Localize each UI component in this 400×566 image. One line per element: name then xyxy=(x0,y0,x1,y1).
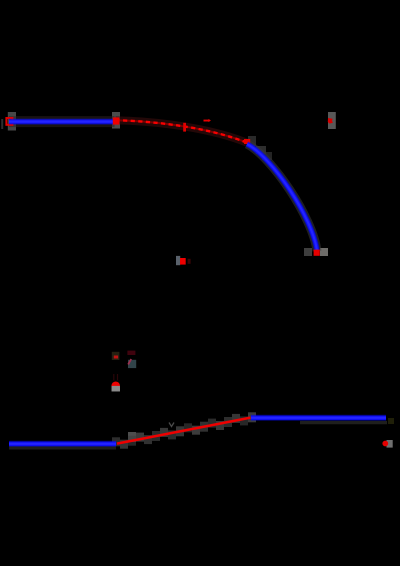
faint dark red marks upper right of slider xyxy=(127,351,135,355)
red marker at bottom end of blue arc xyxy=(314,250,320,256)
small dark glyph above phase line xyxy=(169,423,174,427)
red dashed actual response curve (top) xyxy=(116,120,248,143)
faint halo under bottom-right blue line xyxy=(300,421,387,424)
faint halo along blue arc xyxy=(247,144,317,251)
faint halo under bottom-left blue line xyxy=(9,446,116,450)
bottom-right blue phase asymptote xyxy=(251,415,386,421)
dark legs above red dome xyxy=(113,374,114,380)
artifact box on bottom red line xyxy=(128,432,136,442)
faint halo along top red dashed curve xyxy=(116,120,248,143)
artifact box at corner point of top asymptote xyxy=(112,112,120,129)
artifact box at left end of top asymptote xyxy=(8,112,16,131)
faint dark red to its right xyxy=(188,259,191,264)
red dot marker bottom right xyxy=(382,441,388,447)
red rising phase line xyxy=(117,418,251,444)
faint olive smudge at right end xyxy=(388,418,394,424)
gray blocky halo along bottom red line xyxy=(112,412,256,448)
faint dark halo under top-left blue line xyxy=(9,116,115,127)
blue falling arc (top response) xyxy=(247,144,317,251)
artifact box under red dome xyxy=(112,386,120,392)
artifact box at bottom right dot xyxy=(387,440,393,448)
artifact strip at -3dB marker xyxy=(176,256,180,265)
red dome marker on axis xyxy=(111,382,120,391)
faint strip left edge xyxy=(1,119,3,129)
open red square marker at left end of top line xyxy=(6,118,12,125)
gray box covering dome bottom xyxy=(112,386,120,392)
red filled square marker at corner frequency on top line xyxy=(113,117,120,124)
red blob marker in right legend box xyxy=(328,118,333,124)
red marker at start of blue arc xyxy=(244,139,250,144)
top-left blue asymptote line xyxy=(9,119,115,125)
small red mark in slider box xyxy=(114,356,118,359)
blocky artifacts at arc top xyxy=(248,136,256,146)
dim continuous under-stroke of dashed response curve xyxy=(116,120,248,143)
bottom-left blue phase asymptote xyxy=(9,441,116,447)
artifact box teal xyxy=(128,360,136,368)
small red horizontal arrow dash annotation xyxy=(204,120,209,122)
crimson stroke over teal box xyxy=(128,359,131,364)
artifact blocks flanking arc bottom marker xyxy=(304,248,312,256)
artifact box at right legend marker xyxy=(328,112,336,129)
red square marker on top-panel axis (corner frequency) xyxy=(180,258,186,265)
artifact box slider small xyxy=(112,352,120,360)
red vertical tick (-3dB) below dashed curve xyxy=(183,123,186,132)
